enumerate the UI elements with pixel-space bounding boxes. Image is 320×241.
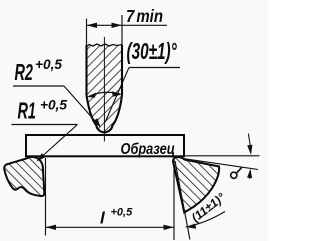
svg-text:7min: 7min — [126, 7, 163, 26]
svg-text:+0,5: +0,5 — [40, 97, 67, 112]
svg-text:Образец: Образец — [121, 141, 175, 159]
svg-text:l: l — [100, 209, 106, 228]
svg-text:R1: R1 — [18, 99, 36, 124]
svg-text:+0,5: +0,5 — [111, 207, 134, 219]
svg-text:+0,5: +0,5 — [35, 57, 62, 72]
svg-text:(30±1)°: (30±1)° — [127, 39, 177, 65]
svg-text:R2: R2 — [15, 61, 34, 86]
